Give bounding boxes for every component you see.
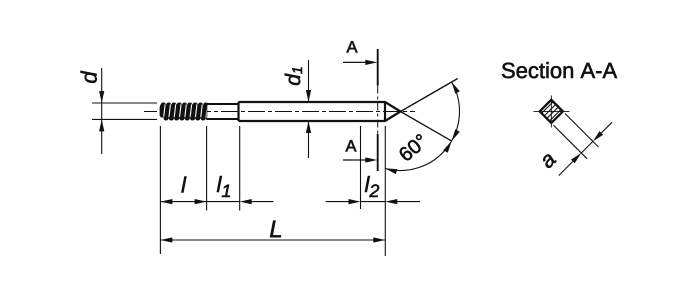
square cross-section [529, 89, 573, 133]
cutting plane arrow bottom [343, 159, 367, 161]
dimension L [160, 239, 385, 241]
flank extension ray upper [401, 79, 458, 112]
shank d1 [239, 101, 386, 121]
dimension d1 [308, 60, 310, 158]
dimension l [160, 201, 206, 203]
label A bottom [346, 140, 357, 151]
label d [81, 71, 97, 83]
label A top [347, 41, 358, 52]
centerline of part [144, 111, 415, 113]
section centerlines [534, 110, 570, 112]
label d1 [285, 67, 302, 85]
label 60deg [398, 133, 429, 162]
dimension d [92, 68, 157, 154]
section cutting plane line [377, 49, 379, 171]
dimension l1 [207, 201, 240, 203]
thread (threaded section) [160, 103, 207, 120]
extension lines [160, 126, 385, 256]
flank extension ray lower [401, 112, 452, 142]
cone point [385, 102, 401, 121]
dimension a [553, 114, 612, 176]
dimension l2 [326, 201, 350, 203]
hatching [529, 89, 573, 133]
Section A-A title [502, 62, 617, 78]
cutting plane arrow top [343, 61, 367, 63]
label a [540, 153, 556, 169]
60 deg angular dimension [385, 82, 459, 170]
neck between thread and shank [206, 104, 238, 119]
